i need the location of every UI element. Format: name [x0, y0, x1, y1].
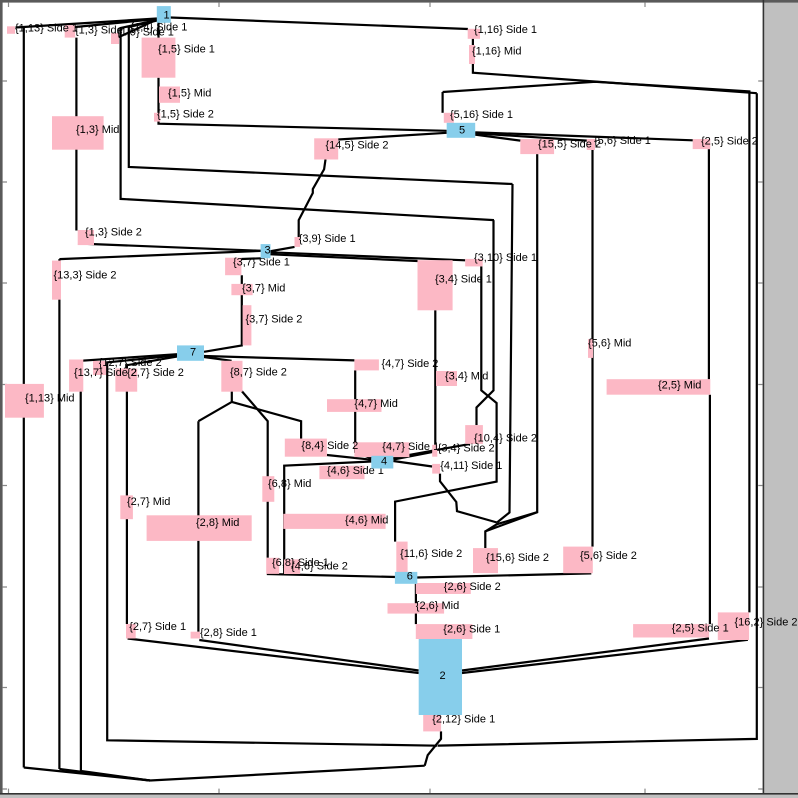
svg-text:4: 4 [381, 456, 387, 468]
label {1,16} Mid box [469, 45, 475, 64]
label {2,6} Side 2 box [416, 583, 471, 594]
label {13,3} Side 2 box [52, 261, 61, 300]
wire bundle from x23.8 [24, 768, 150, 781]
label {2,5} Side 2 box [693, 139, 711, 149]
node 3 [261, 244, 271, 258]
wire node7-to-{8,7} [204, 357, 232, 361]
label {1,5} Side 2 box [154, 113, 160, 122]
axis frame bottom [0, 793, 798, 795]
wire node1-to-{1,3} [75, 19, 157, 27]
svg-text:{8,7} Side 2: {8,7} Side 2 [230, 367, 287, 379]
svg-text:{5,16} Side 1: {5,16} Side 1 [450, 109, 513, 121]
svg-text:{2,5} Side 1: {2,5} Side 1 [672, 623, 729, 635]
label {1,3} Side 1 box [65, 25, 76, 37]
svg-text:5: 5 [459, 125, 465, 137]
label {5,6} Side 2 box [563, 547, 593, 574]
wire node3-to-{3,4} [271, 254, 418, 261]
svg-text:{4,11} Side 1: {4,11} Side 1 [440, 460, 502, 472]
svg-text:{1,3} Side 2: {1,3} Side 2 [85, 227, 142, 239]
figure margin right [764, 0, 798, 798]
node 5 [447, 123, 476, 138]
wire {10,4}-to-node4 [393, 444, 470, 458]
wire {4,7} vertical to node4 [355, 370, 371, 458]
wire node4-to-{4,11} [393, 461, 432, 467]
svg-text:{3,7} Side 1: {3,7} Side 1 [233, 257, 290, 269]
svg-text:{3,4} Side 2: {3,4} Side 2 [438, 443, 495, 455]
wire node7 left to bottom bundle [81, 354, 177, 771]
svg-text:{2,7} Mid: {2,7} Mid [127, 496, 170, 508]
svg-text:{3,10} Side 1: {3,10} Side 1 [474, 252, 537, 264]
svg-text:{1,13} Mid: {1,13} Mid [25, 393, 75, 405]
wire {2,5} vertical upper [708, 149, 710, 379]
label {1,5} Mid box [159, 87, 180, 103]
wire node3-to-{3,10} [271, 252, 466, 260]
label {1,16} Side 1 box [468, 29, 480, 39]
node 1 [157, 6, 171, 23]
wire node1-to-{1,13} [16, 19, 158, 28]
wire {1,13} vertical [23, 27, 25, 768]
wire node8-to-{2,8} [198, 391, 231, 421]
svg-text:{1,13} Side 1: {1,13} Side 1 [15, 23, 78, 35]
wire node3-to-{3,7} [241, 257, 261, 260]
label {11,6} Side 2 box [396, 542, 407, 573]
wire {3,10} chain to {11,6} [395, 266, 497, 541]
wire {1,5} chain to node5 [159, 78, 447, 131]
label {4,6} Mid box [283, 514, 385, 529]
wire {1,3}Side2-to-node3 [78, 244, 261, 251]
svg-text:3: 3 [264, 245, 270, 257]
label {1,9} Side 1 box [111, 33, 119, 44]
label {15,6} Side 2 box [473, 548, 498, 573]
svg-text:{5,6} Side 1: {5,6} Side 1 [594, 135, 651, 147]
label {1,3} Mid box [52, 116, 104, 150]
svg-text:{5,6} Side 2: {5,6} Side 2 [580, 550, 637, 562]
label {3,4} Mid box [436, 371, 457, 386]
wire {10,4} chain [477, 220, 494, 425]
node 6 [395, 571, 417, 584]
wire node1-to-{1,5} [157, 21, 159, 38]
label {4,11} Side 1 box [432, 464, 440, 474]
label {6,8} Mid box [262, 476, 274, 502]
wire {14,5} zigzag to {3,9} [299, 160, 326, 238]
label {2,8} Side 1 box [191, 632, 200, 639]
wire {5,6} vertical [591, 150, 593, 547]
svg-text:{11,6} Side 2: {11,6} Side 2 [400, 548, 462, 560]
label {1,3} Side 2 box [78, 230, 94, 245]
wire node1 elbow to {10,4} chain [121, 20, 494, 220]
wire {2,8}Side1-to-node2 [199, 640, 418, 671]
svg-text:{5,6} Mid: {5,6} Mid [588, 338, 631, 350]
label {8,4} Side 2 box [285, 439, 327, 457]
wire {8,4}-to-node4 [327, 455, 371, 460]
wire right border vertical and bottom return [438, 93, 757, 745]
wire {2,7}Side1-to-node2 [128, 639, 419, 674]
label {13,7} Side 2 box [69, 360, 83, 392]
wire node8-to-{6,8} [242, 391, 268, 557]
label {2,6} Mid box [388, 603, 445, 613]
wire node6-to-{2,6} chain [415, 584, 417, 624]
label {2,5} Side 1 box [633, 624, 709, 637]
wire bundle from x59.4 [59, 769, 150, 781]
svg-text:{1,5} Side 1: {1,5} Side 1 [158, 44, 215, 56]
wire node4-to-{3,4}Side2 [393, 452, 432, 460]
wire node5-to-{2,5} [475, 132, 693, 140]
label {1,5} Side 1 box [142, 38, 176, 78]
label {12,7} Side 2 box [93, 361, 106, 375]
label {2,7} Side 2 box [115, 369, 137, 392]
wire {3,9}-to-node3 [269, 247, 295, 252]
label {14,5} Side 2 box [314, 138, 338, 159]
svg-text:1: 1 [163, 10, 169, 22]
wire {2,8} vertical [197, 421, 199, 632]
wire {16,2}-to-node2 [462, 640, 748, 673]
label {6,8} Side 1 box [266, 558, 279, 574]
label {4,6} Side 1 box [319, 466, 364, 480]
svg-text:{14,5} Side 2: {14,5} Side 2 [326, 140, 389, 152]
svg-text:{2,6} Side 2: {2,6} Side 2 [444, 581, 501, 593]
label {1,13} Mid box [5, 384, 44, 418]
label {2,7} Side 1 box [126, 624, 136, 639]
wire node1-elbow-right [129, 21, 513, 185]
svg-text:{15,6} Side 2: {15,6} Side 2 [486, 552, 549, 564]
wire node1-to-{1,16} [170, 18, 468, 30]
label {4,7} Side 1 box [354, 442, 409, 457]
wire {5,16} peak to {16,2} [443, 82, 750, 613]
label {15,5} Side 2 box [520, 139, 554, 154]
label {8,7} Side 2 box [221, 361, 242, 392]
wire {5,16} vertical [442, 92, 444, 113]
svg-text:{3,7} Mid: {3,7} Mid [242, 283, 285, 295]
svg-text:6: 6 [407, 571, 413, 583]
axis frame right [763, 0, 765, 795]
svg-text:{4,6} Side 2: {4,6} Side 2 [291, 561, 348, 573]
svg-text:{3,4} Side 1: {3,4} Side 1 [435, 274, 492, 286]
svg-text:{3,7} Side 2: {3,7} Side 2 [246, 314, 303, 326]
svg-text:{2,8} Side 1: {2,8} Side 1 [200, 627, 257, 639]
svg-text:{3,9} Side 1: {3,9} Side 1 [299, 233, 356, 245]
wire {3,7} vertical to node7 [204, 275, 242, 352]
wire node7-to-{4,7} chain [204, 356, 354, 360]
svg-text:{4,7} Side 1: {4,7} Side 1 [382, 441, 439, 453]
wire {13,3}-to-node3 [59, 251, 260, 259]
svg-text:{2,8} Mid: {2,8} Mid [196, 517, 239, 529]
label {5,6} Side 1 box [587, 139, 595, 150]
svg-text:{1,5} Side 2: {1,5} Side 2 [157, 109, 214, 121]
svg-text:{2,7} Side 1: {2,7} Side 1 [129, 621, 186, 633]
label {2,5} Mid box [607, 379, 711, 395]
svg-text:{2,5} Side 2: {2,5} Side 2 [701, 136, 758, 148]
wire node8-to-{8,4} [232, 402, 301, 439]
node 7 [177, 345, 204, 360]
svg-text:{8,4} Side 2: {8,4} Side 2 [301, 440, 358, 452]
label {3,9} Side 1 box [295, 237, 301, 247]
wire {4,11} chain to node11 [440, 474, 497, 523]
wire node1-to-{1,9} [119, 20, 157, 38]
wire {15,5} chain to {15,6} [485, 154, 537, 548]
label {5,16} Side 1 box [444, 113, 454, 123]
label {4,7} Side 2 box [354, 359, 379, 370]
svg-text:{16,2} Side 2: {16,2} Side 2 [735, 617, 798, 629]
svg-text:7: 7 [190, 347, 196, 359]
wire {2,12} drop [425, 731, 441, 765]
label {3,4} Side 2 box [432, 445, 437, 457]
svg-text:{13,3} Side 2: {13,3} Side 2 [54, 270, 117, 282]
wire bundle from x80.9 [81, 771, 150, 781]
wire bottom bundle main [150, 766, 425, 781]
svg-text:{1,5} Mid: {1,5} Mid [168, 88, 211, 100]
label {3,7} Side 2 box [243, 305, 252, 345]
svg-text:{4,7} Side 2: {4,7} Side 2 [382, 358, 439, 370]
svg-text:{1,16} Mid: {1,16} Mid [472, 46, 522, 58]
wire node7 fan elbow [107, 355, 437, 745]
wire {3,4} vertical [434, 310, 436, 445]
label {4,6} Side 2 box [284, 559, 300, 574]
svg-text:{2,5} Mid: {2,5} Mid [658, 380, 701, 392]
wire {2,5} vertical lower [709, 395, 711, 624]
wire {15,5} crossing diagonal [485, 512, 537, 531]
node 2 [419, 639, 462, 715]
svg-text:{1,16} Side 1: {1,16} Side 1 [474, 24, 537, 36]
svg-text:{15,5} Side 2: {15,5} Side 2 [538, 139, 601, 151]
svg-text:{2,7} Side 2: {2,7} Side 2 [127, 367, 184, 379]
wire {1,16} diagonal [473, 39, 757, 93]
label {5,6} Mid box [588, 339, 593, 358]
label {2,12} Side 1 box [423, 715, 441, 731]
wire node6 horizontal [267, 573, 592, 577]
label {1,13} Side 1 box [7, 26, 15, 34]
wire {2,5}Side1-to-node2 [462, 639, 709, 671]
axis frame top [0, 0, 798, 3]
label {3,10} Side 1 box [465, 259, 483, 267]
wire {13,3} vertical [58, 259, 60, 769]
wire {1,3} vertical [75, 38, 77, 231]
wire node4-{4,6} loop [284, 462, 371, 574]
svg-text:{4,7} Mid: {4,7} Mid [354, 398, 397, 410]
wire long vertical to node11 [497, 184, 513, 523]
svg-text:{1,3} Mid: {1,3} Mid [76, 124, 119, 136]
wire node7-to-{2,7} chain [127, 357, 177, 624]
label {3,7} Mid box [231, 284, 252, 295]
wire node5-to-{14,5} [338, 133, 447, 140]
svg-text:{4,6} Mid: {4,6} Mid [345, 515, 388, 527]
wire node5-to-{15,5} [475, 135, 520, 141]
wire node5-to-{5,6} [475, 133, 587, 140]
svg-text:{2,12} Side 1: {2,12} Side 1 [432, 713, 495, 725]
figure margin bottom [0, 795, 798, 798]
svg-text:{2,6} Mid: {2,6} Mid [416, 600, 459, 612]
svg-text:{1,4} Side 1: {1,4} Side 1 [131, 22, 188, 34]
svg-text:{2,6} Side 1: {2,6} Side 1 [443, 624, 500, 636]
axis frame left [0, 0, 3, 795]
svg-text:{6,8} Mid: {6,8} Mid [268, 478, 311, 490]
label {4,7} Mid box [327, 399, 382, 412]
node 4 [371, 456, 393, 469]
label {3,4} Side 1 box [418, 260, 453, 310]
svg-text:2: 2 [440, 670, 446, 682]
label {10,4} Side 2 box [465, 425, 483, 444]
label {3,7} Side 1 box [225, 258, 241, 276]
label {2,6} Side 1 box [416, 624, 473, 639]
label {16,2} Side 2 box [718, 612, 749, 640]
label {2,7} Mid box [120, 495, 133, 519]
label {2,8} Mid box [147, 515, 252, 541]
svg-text:{3,4} Mid: {3,4} Mid [445, 371, 488, 383]
